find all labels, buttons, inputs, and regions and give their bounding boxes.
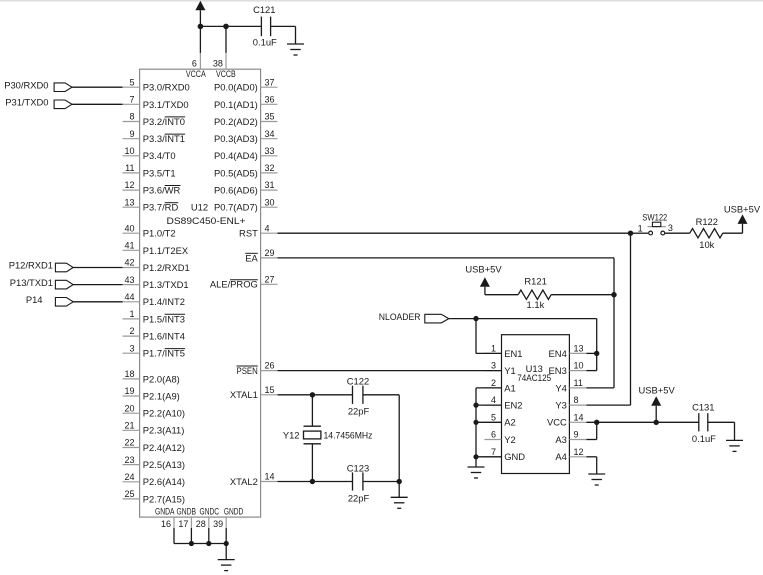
wire GNDD drop [225,528,227,544]
wire bus to ground [225,544,227,560]
U12 pin 5 P3.0/RXD0 [123,77,190,92]
svg-text:P30/RXD0: P30/RXD0 [4,79,48,90]
wire C131 to ground [708,422,735,440]
crystal Y12 [283,426,373,444]
ground at C121 [287,44,304,55]
svg-text:32: 32 [265,163,275,173]
svg-text:10k: 10k [699,239,714,250]
svg-text:29: 29 [265,248,275,258]
wire VCCB pin 38 drop [225,26,227,52]
node A2 junction [473,420,478,425]
svg-text:P2.3(A11): P2.3(A11) [143,425,185,436]
svg-text:21: 21 [124,420,134,430]
svg-text:1: 1 [491,344,496,354]
U12 pin 8 P3.2/INT0 [123,112,186,127]
U12 pin 18 P2.0(A8) [123,369,180,384]
svg-text:3: 3 [129,343,134,353]
svg-text:C122: C122 [347,375,369,386]
IC U13 74AC125 body [502,335,570,474]
svg-text:PSEN: PSEN [237,365,258,376]
wire XTAL2 to C123 [278,481,353,483]
svg-text:43: 43 [124,275,134,285]
svg-text:5: 5 [491,412,496,422]
svg-text:P3.6/WR: P3.6/WR [143,185,181,196]
wire GNDA drop [173,528,175,544]
U12 pin 44 P1.4/INT2 [123,292,186,307]
wire crystal bottom lead [311,444,313,482]
svg-text:P3.0/RXD0: P3.0/RXD0 [143,82,190,93]
resistor R121 [518,275,551,310]
svg-text:P31/TXD0: P31/TXD0 [5,97,48,108]
svg-text:33: 33 [265,146,275,156]
connector P30/RXD0 [4,79,72,91]
wire GNDB drop [190,528,192,544]
U13 pin 10 EN3 [549,361,587,376]
svg-text:P2.6(A14): P2.6(A14) [143,476,185,487]
svg-text:7: 7 [491,447,496,457]
U12 pin 24 P2.6(A14) [123,472,186,487]
wire RST pin 4 to SW122 [278,232,631,234]
svg-text:14.7456MHz: 14.7456MHz [324,429,373,440]
resistor R122 [690,216,723,250]
svg-text:1.1k: 1.1k [527,299,545,310]
svg-text:44: 44 [124,292,134,302]
U13 pin 5 A2 [484,412,515,427]
wire VCC line to C131 [586,421,698,423]
svg-text:22pF: 22pF [348,405,370,416]
wire GND to ground chain [476,456,502,458]
U12 pin 33 P0.4(AD4) [214,146,277,161]
node XTAL1 junction [310,392,315,397]
wire P13/TXD1 to P1.3 [73,284,122,286]
wire P14 to P1.4 [73,301,122,303]
svg-text:P13/TXD1: P13/TXD1 [10,277,53,288]
node VCC-USB junction [654,420,659,425]
U12 pin 23 P2.5(A13) [123,455,186,470]
U12 pin 34 P0.3(AD3) [214,129,277,144]
svg-text:74AC125: 74AC125 [517,372,551,383]
svg-text:USB+5V: USB+5V [465,264,502,275]
wire USB+5V to R121 [485,287,518,295]
U12 pin 19 P2.1(A9) [123,386,180,401]
svg-text:P2.4(A12): P2.4(A12) [143,442,185,453]
wire RST junction to Y3 drop [630,233,632,405]
svg-text:GNDC: GNDC [200,506,220,517]
svg-text:A4: A4 [555,451,566,462]
U12 pin 38 VCCB [213,52,236,79]
U12 pin 17 GNDB [177,506,197,529]
wire A1 to ground chain [476,387,502,389]
svg-text:P1.5/INT3: P1.5/INT3 [143,313,185,324]
wire EN4 to node [586,352,596,354]
svg-text:Y1: Y1 [504,365,515,376]
IC U12 DS89C450-ENL+ body [140,69,261,517]
wire EA pin 29 right [278,257,615,259]
wire EA drop to Y4 [613,258,615,388]
svg-text:VCCA: VCCA [186,68,206,79]
svg-text:P3.3/INT1: P3.3/INT1 [143,133,185,144]
svg-text:R121: R121 [524,275,546,286]
svg-text:3: 3 [491,361,496,371]
svg-text:GNDD: GNDD [224,506,244,517]
U12 pin 30 P0.7(AD7) [214,197,277,212]
ground at U12 GND bus [218,560,235,571]
svg-text:35: 35 [265,112,275,122]
svg-text:P14: P14 [26,294,43,305]
wire ground chain vertical [475,388,477,467]
svg-text:P2.0(A8): P2.0(A8) [143,373,180,384]
U13 pin 3 Y1 [484,361,515,376]
svg-text:P1.0/T2: P1.0/T2 [143,228,176,239]
node R121-EA junction [611,292,616,297]
wire EN2 to ground chain [476,404,502,406]
svg-text:6: 6 [491,430,496,440]
wire GNDC drop [208,528,210,544]
svg-text:11: 11 [574,378,583,388]
svg-text:A1: A1 [504,382,515,393]
svg-text:A3: A3 [555,434,566,445]
wire VCCA pin 6 drop [199,26,201,52]
svg-text:10: 10 [124,146,134,156]
svg-text:P1.3/TXD1: P1.3/TXD1 [143,279,189,290]
node GND junction [473,454,478,459]
U12 pin 26 PSEN [237,361,278,376]
capacitor C121 [253,4,277,47]
U12 pin 41 P1.1/T2EX [123,240,189,255]
wire NLOADER drop to EN1 [475,319,477,354]
U12 pin 22 P2.4(A12) [123,438,186,453]
svg-text:P0.6(AD6): P0.6(AD6) [214,185,258,196]
U12 pin 10 P3.4/T0 [123,146,176,161]
ground at A4 [588,474,605,485]
capacitor C123 [347,462,370,503]
wire P30/RXD0 to P3.0 [72,86,123,88]
svg-text:RST: RST [239,228,258,239]
svg-text:P3.5/T1: P3.5/T1 [143,167,176,178]
svg-text:P0.7(AD7): P0.7(AD7) [214,202,258,213]
U12 pin 21 P2.3(A11) [123,420,185,435]
svg-text:U12: U12 [191,201,208,212]
svg-text:SW122: SW122 [642,211,667,222]
wire A2 to ground chain [476,421,502,423]
svg-text:20: 20 [124,403,134,413]
svg-text:19: 19 [124,386,134,396]
U12 pin 43 P1.3/TXD1 [123,275,189,290]
U12 pin 15 XTAL1 [230,385,278,400]
svg-text:2: 2 [491,378,496,388]
svg-text:P2.5(A13): P2.5(A13) [143,459,185,470]
U13 pin 12 A4 [555,447,586,462]
svg-text:4: 4 [491,395,496,405]
svg-text:Y12: Y12 [283,429,300,440]
svg-text:P3.2/INT0: P3.2/INT0 [143,116,185,127]
svg-text:1: 1 [129,309,134,319]
svg-text:12: 12 [124,180,134,190]
ground at U13 GND chain [468,467,485,478]
U12 pin 13 P3.7/RD [123,197,179,212]
U12 pin 3 P1.7/INT5 [123,343,186,358]
svg-text:7: 7 [129,94,134,104]
node xtal ground junction [397,479,402,484]
svg-text:41: 41 [124,240,134,250]
U12 pin 6 VCCA [186,52,206,79]
wire USB+5V arrow stem [655,406,657,423]
svg-text:14: 14 [574,412,584,422]
U12 pin 42 P1.2/RXD1 [123,258,190,273]
svg-text:ALE/PROG: ALE/PROG [210,279,258,290]
svg-text:GND: GND [504,451,525,462]
svg-text:13: 13 [124,197,134,207]
U13 pin 1 EN1 [484,344,522,359]
capacitor C122 [347,375,370,416]
svg-text:28: 28 [196,519,206,529]
svg-text:P1.2/RXD1: P1.2/RXD1 [143,262,190,273]
svg-text:15: 15 [265,385,275,395]
svg-text:P1.7/INT5: P1.7/INT5 [143,348,185,359]
svg-text:24: 24 [124,472,134,482]
svg-text:8: 8 [574,395,579,405]
node EN4 junction [594,351,599,356]
connector P13/TXD1 [10,277,73,289]
svg-text:DS89C450-ENL+: DS89C450-ENL+ [167,215,247,226]
U12 pin 25 P2.7(A15) [123,489,186,504]
switch SW122 [633,211,673,235]
svg-text:23: 23 [124,455,134,465]
svg-text:12: 12 [574,447,584,457]
U12 pin 29 EA [245,248,277,263]
node XTAL2 junction [310,479,315,484]
svg-text:P2.7(A15): P2.7(A15) [143,493,185,504]
wire A4 to ground [586,457,596,474]
U12 pin 11 P3.5/T1 [123,163,176,178]
wire EN3 to NLOADER corner [586,370,596,372]
svg-text:17: 17 [178,519,188,529]
wire SW122 to R122 [665,232,690,234]
svg-text:36: 36 [265,94,275,104]
connector P14 [26,294,73,306]
svg-text:EN1: EN1 [504,348,522,359]
wire C121 to ground [271,26,296,44]
svg-text:18: 18 [124,369,134,379]
node VCCB junction [223,24,229,30]
wire A3 up to VCC [586,422,596,439]
power USB+5V at R121 [465,264,502,287]
ground at C131 [726,440,743,451]
U12 pin 16 GNDA [155,506,175,529]
svg-text:26: 26 [265,361,275,371]
svg-text:P0.1(AD1): P0.1(AD1) [214,99,258,110]
wire P31/TXD0 to P3.1 [72,103,123,105]
wire EN1 to NLOADER drop [476,352,502,354]
node EN2 junction [473,403,478,408]
svg-text:37: 37 [265,77,275,87]
node NLOADER junction [473,316,478,321]
U12 pin 35 P0.2(AD2) [214,112,277,127]
svg-text:USB+5V: USB+5V [724,203,761,214]
wire XTAL1 to C122 [278,394,353,396]
node VCC-A3 junction [594,420,599,425]
svg-text:P0.5(AD5): P0.5(AD5) [214,167,258,178]
svg-text:GNDB: GNDB [177,506,197,517]
svg-text:22pF: 22pF [348,492,370,503]
U12 pin 12 P3.6/WR [123,180,181,195]
power USB+5V at VCC [638,385,675,406]
svg-text:P3.7/RD: P3.7/RD [143,202,179,213]
U12 pin 4 RST [239,223,277,238]
svg-text:9: 9 [574,430,579,440]
svg-text:EA: EA [245,252,258,263]
svg-text:8: 8 [129,112,134,122]
svg-text:0.1uF: 0.1uF [253,36,277,47]
svg-text:16: 16 [161,519,171,529]
U12 pin 1 P1.5/INT3 [123,309,186,324]
svg-text:XTAL2: XTAL2 [230,476,258,487]
wire xtal right rail [398,395,400,482]
wire Y4 to EA drop [586,387,614,389]
svg-text:C131: C131 [692,402,714,413]
U13 pin 11 Y4 [555,378,586,393]
svg-text:42: 42 [124,258,134,268]
svg-text:P0.3(AD3): P0.3(AD3) [214,133,258,144]
power USB+5V at R122 [724,203,761,224]
svg-text:0.1uF: 0.1uF [692,433,716,444]
svg-text:XTAL1: XTAL1 [230,389,258,400]
wire PSEN to Y1 [278,370,502,372]
connector NLOADER [379,311,449,323]
U13 pin 14 VCC [547,412,586,427]
U12 pin 31 P0.6(AD6) [214,180,277,195]
svg-text:1: 1 [638,223,643,233]
svg-text:P1.4/INT2: P1.4/INT2 [143,296,185,307]
svg-text:40: 40 [124,223,134,233]
U12 pin 20 P2.2(A10) [123,403,186,418]
wire NLOADER drop to EN3 [596,319,598,371]
svg-text:P1.1/T2EX: P1.1/T2EX [143,245,189,256]
svg-text:39: 39 [213,519,223,529]
U13 pin 9 A3 [555,430,586,445]
svg-text:9: 9 [129,129,134,139]
svg-text:P12/RXD1: P12/RXD1 [9,260,53,271]
svg-text:USB+5V: USB+5V [638,385,675,396]
wire xtal rail to ground [398,482,400,498]
connector P12/RXD1 [9,260,73,272]
svg-text:A2: A2 [504,417,515,428]
svg-text:GNDA: GNDA [155,506,175,517]
U12 pin 36 P0.1(AD1) [214,94,277,109]
U13 pin 7 GND [484,447,525,462]
wire ground bus [174,543,226,545]
wire crystal top lead [311,395,313,426]
ground at crystal [391,497,408,508]
U12 pin 39 GNDD [213,506,243,529]
U12 pin 32 P0.5(AD5) [214,163,277,178]
U12 pin 2 P1.6/INT4 [123,326,186,341]
svg-text:27: 27 [265,274,275,284]
U12 pin 27 ALE/PROG [210,274,278,289]
svg-text:EN3: EN3 [549,365,567,376]
svg-text:R122: R122 [696,216,718,227]
svg-text:C123: C123 [347,462,369,473]
connector P31/TXD0 [5,97,72,109]
svg-text:25: 25 [124,489,134,499]
svg-text:VCC: VCC [547,417,567,428]
svg-text:P2.1(A9): P2.1(A9) [143,390,180,401]
svg-text:P0.0(AD0): P0.0(AD0) [214,82,258,93]
svg-text:14: 14 [265,472,275,482]
svg-text:P1.6/INT4: P1.6/INT4 [143,331,185,342]
svg-text:2: 2 [129,326,134,336]
node RST junction [628,231,633,236]
svg-text:Y4: Y4 [555,382,566,393]
wire C122 to right rail [363,394,399,396]
svg-text:31: 31 [265,180,275,190]
svg-text:Y3: Y3 [555,400,566,411]
svg-text:30: 30 [265,197,275,207]
node VCCA junction [198,24,204,30]
svg-text:5: 5 [129,77,134,87]
svg-text:C121: C121 [253,4,275,15]
svg-text:P3.4/T0: P3.4/T0 [143,150,176,161]
U13 pin 2 A1 [484,378,515,393]
svg-text:3: 3 [668,223,673,233]
svg-text:Y2: Y2 [504,434,515,445]
node GNDB junction [189,541,194,546]
wire VCC rail to C121 [200,25,261,27]
svg-text:EN4: EN4 [549,348,567,359]
capacitor C131 [692,402,716,445]
svg-text:10: 10 [574,361,584,371]
wire Y3 to RST drop [586,404,630,406]
svg-text:P0.2(AD2): P0.2(AD2) [214,116,258,127]
power VCC arrow top [195,1,205,27]
U12 pin 7 P3.1/TXD0 [123,94,189,109]
svg-text:6: 6 [192,58,197,68]
wire P12/RXD1 to P1.2 [73,267,122,269]
wire R121 to EA junction [551,294,614,296]
svg-text:P0.4(AD4): P0.4(AD4) [214,150,258,161]
U12 pin 28 GNDC [196,506,219,529]
svg-text:13: 13 [574,344,584,354]
svg-text:11: 11 [125,163,134,173]
U13 pin 4 EN2 [484,395,522,410]
svg-text:P2.2(A10): P2.2(A10) [143,408,185,419]
svg-text:34: 34 [265,129,275,139]
U13 pin 6 Y2 [484,430,515,445]
U13 pin 13 EN4 [549,344,587,359]
U12 pin 14 XTAL2 [230,472,278,487]
top image border [0,0,763,2]
svg-text:4: 4 [265,223,270,233]
svg-text:22: 22 [124,438,134,448]
U13 pin 8 Y3 [555,395,586,410]
node GNDC junction [206,541,211,546]
svg-text:NLOADER: NLOADER [379,311,421,322]
U12 pin 9 P3.3/INT1 [123,129,186,144]
svg-text:P3.1/TXD0: P3.1/TXD0 [143,99,189,110]
node GNDD junction [224,541,229,546]
svg-text:EN2: EN2 [504,400,522,411]
svg-text:VCCB: VCCB [216,68,236,79]
svg-text:38: 38 [213,58,223,68]
wire R122 to USB+5V [723,224,743,233]
wire C123 to right rail [363,481,399,483]
wire NLOADER to EN3 corner [449,318,597,320]
U12 pin 40 P1.0/T2 [123,223,176,238]
U12 pin 37 P0.0(AD0) [214,77,277,92]
